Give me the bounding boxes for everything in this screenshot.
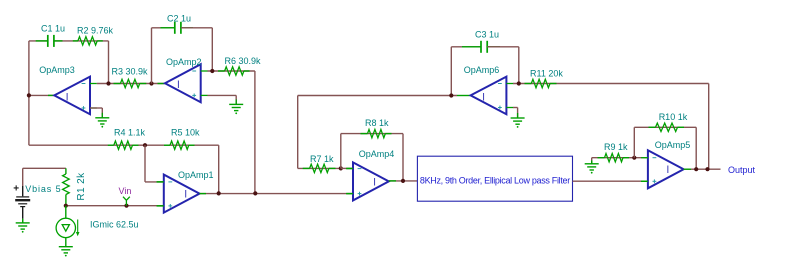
node OpAmp3 out	[27, 93, 31, 97]
resistor R3	[114, 83, 121, 85]
wire R9 row	[592, 157, 648, 159]
op-amp U OpAmp4	[353, 162, 389, 200]
svg-text:Vin: Vin	[119, 186, 132, 196]
resistor R4	[108, 144, 114, 146]
wire R2 loop right vertical	[108, 41, 110, 84]
resistor R5	[164, 144, 170, 146]
wire C3 top	[451, 46, 481, 48]
wire R6 down vertical	[254, 71, 256, 193]
wire R10 loop	[633, 127, 635, 157]
node R1 bottom	[64, 204, 68, 208]
wire R5 right vertical down	[218, 145, 220, 193]
svg-text:OpAmp1: OpAmp1	[178, 170, 214, 180]
capacitor C1	[47, 35, 49, 47]
ground battery	[22, 219, 24, 223]
resistor R2	[73, 40, 78, 42]
ground OpAmp3	[101, 108, 103, 118]
wire box out to OpAmp5 plus	[573, 180, 648, 182]
resistor R10	[649, 126, 656, 128]
ground OpAmp6	[517, 108, 519, 119]
node R2 loop / R3	[106, 81, 110, 85]
wire R8 loop	[340, 134, 342, 169]
ground IGmic	[59, 246, 73, 248]
svg-text:R4 1.1k: R4 1.1k	[114, 128, 146, 138]
wire R3 row	[97, 83, 165, 85]
wire down to R7	[297, 96, 299, 169]
wire C2 loop left vertical	[151, 28, 153, 84]
svg-text:R2 9.76k: R2 9.76k	[77, 26, 114, 36]
resistor R6	[218, 70, 225, 72]
op-amp U OpAmp3	[54, 77, 90, 115]
svg-text:C1 1u: C1 1u	[41, 24, 65, 34]
svg-text:l: l	[177, 80, 179, 91]
node C2 / R6	[210, 69, 214, 73]
wire R11 row	[513, 83, 709, 85]
ground R9	[591, 158, 593, 161]
resistor R1	[65, 168, 67, 174]
svg-text:R11 20k: R11 20k	[530, 69, 563, 79]
svg-text:C3 1u: C3 1u	[475, 30, 499, 40]
svg-text:OpAmp5: OpAmp5	[655, 140, 691, 150]
svg-text:R6 30.9k: R6 30.9k	[225, 56, 262, 66]
node R4/R5	[143, 143, 147, 147]
op-amp U OpAmp6	[471, 77, 507, 115]
wire R4/R5 row	[29, 144, 219, 146]
svg-text:+: +	[13, 184, 19, 195]
capacitor C3	[480, 41, 482, 53]
svg-text:8KHz, 9th Order, Ellipical Low: 8KHz, 9th Order, Ellipical Low pass Filt…	[420, 176, 570, 186]
wire top C1/R2 row left part	[29, 40, 48, 42]
resistor R8	[361, 133, 368, 135]
svg-text:OpAmp2: OpAmp2	[166, 57, 202, 67]
Vin tie	[123, 197, 130, 206]
node out/R10	[694, 167, 698, 171]
svg-text:IGmic 62.5u: IGmic 62.5u	[90, 220, 139, 230]
wire C2 top left	[152, 27, 175, 29]
node R7/R8	[339, 166, 343, 170]
resistor R11	[525, 83, 532, 85]
svg-text:OpAmp6: OpAmp6	[464, 65, 500, 75]
wire node to OpAmp1 minus	[144, 145, 146, 182]
wire top C1/R2 row right part	[54, 40, 108, 42]
wire R8 right vertical	[402, 134, 404, 181]
op-amp U OpAmp5	[648, 150, 684, 188]
svg-text:R3 30.9k: R3 30.9k	[112, 67, 149, 77]
wire R10 right vertical	[695, 127, 697, 169]
wire left vertical	[28, 41, 30, 145]
filter box	[417, 156, 572, 201]
resistor R7	[298, 167, 341, 169]
wire R6 row	[207, 70, 255, 72]
svg-text:l: l	[374, 177, 376, 188]
svg-text:R1 2k: R1 2k	[76, 172, 87, 201]
op-amp U OpAmp1	[164, 175, 200, 213]
node R9/R10	[632, 156, 636, 160]
ground OpAmp2	[235, 95, 237, 104]
wire C1 lead right	[54, 40, 62, 42]
wire C2 loop right vertical	[211, 28, 213, 71]
node out/R5	[217, 191, 221, 195]
wire OpAmp1 output row	[200, 193, 354, 195]
svg-text:R8 1k: R8 1k	[365, 118, 389, 128]
wire OpAmp2 plus to ground	[207, 94, 236, 96]
wire C3 loop left vertical	[450, 47, 452, 96]
wire R11 vertical down	[708, 84, 710, 170]
svg-text:l: l	[667, 165, 669, 176]
svg-text:Output: Output	[728, 165, 756, 175]
svg-text:l: l	[483, 92, 485, 103]
node C3/R11	[517, 81, 521, 85]
wire C1 lead left	[36, 40, 48, 42]
node Vin	[124, 204, 128, 208]
svg-text:R10 1k: R10 1k	[659, 112, 688, 122]
wire C3 right vertical	[518, 47, 520, 84]
op-amp U OpAmp2	[165, 64, 201, 102]
capacitor C2	[174, 22, 176, 34]
svg-text:Vbias 5: Vbias 5	[25, 184, 61, 194]
node OpAmp6 out	[449, 93, 453, 97]
wire OpAmp3 plus to ground	[90, 107, 102, 109]
wire OpAmp5 output	[684, 168, 721, 170]
svg-text:l: l	[185, 190, 187, 201]
svg-text:OpAmp4: OpAmp4	[359, 149, 395, 159]
resistor R9	[598, 157, 605, 159]
node C2 loop / R3	[149, 81, 153, 85]
node out/R11	[705, 167, 709, 171]
svg-text:R9 1k: R9 1k	[604, 142, 628, 152]
wire Vbias top	[23, 167, 66, 169]
wire long feedback y=95.5	[298, 95, 457, 97]
svg-text:R7 1k: R7 1k	[310, 154, 334, 164]
svg-text:C2 1u: C2 1u	[167, 13, 191, 23]
svg-text:OpAmp3: OpAmp3	[39, 65, 75, 75]
wire C2 top right	[181, 27, 212, 29]
wire OpAmp6 plus ground	[513, 107, 518, 109]
battery Vbias 5	[22, 186, 24, 196]
wire OpAmp4 out	[389, 180, 418, 182]
svg-text:R5 10k: R5 10k	[171, 128, 200, 138]
svg-text:l: l	[66, 92, 68, 103]
node out/R6	[253, 191, 257, 195]
wire OpAmp3 output	[29, 94, 54, 96]
current source IGmic 62.5u	[65, 206, 67, 219]
node R8/out	[401, 179, 405, 183]
wire bottom row y=205.7	[66, 205, 164, 207]
